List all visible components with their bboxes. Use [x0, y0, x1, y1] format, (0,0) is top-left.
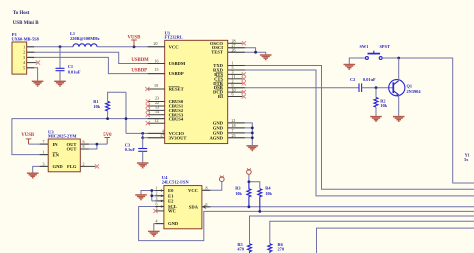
power port VUSB [131, 40, 137, 47]
no-connect X on RI [242, 94, 246, 98]
svg-text:FT232RL: FT232RL [165, 35, 183, 40]
svg-text:USBDP: USBDP [131, 68, 147, 73]
wire U1 GND3 [228, 132, 253, 134]
svg-text:3V3OUT: 3V3OUT [169, 135, 187, 140]
svg-text:20: 20 [154, 41, 158, 46]
svg-text:Q1: Q1 [407, 83, 413, 88]
svg-text:3: 3 [43, 161, 45, 166]
wire R6 net [270, 221, 474, 244]
wire E join vertical [151, 191, 153, 201]
ground U4 E pins [135, 195, 147, 200]
svg-text:10k: 10k [93, 104, 100, 109]
capacitor C1 [56, 68, 65, 70]
wire U3 GND to ground [33, 166, 49, 172]
wire SCL net loop [139, 207, 474, 241]
wire U4 VCC [202, 182, 222, 191]
node C1 tap [59, 45, 62, 48]
svg-text:VUSB: VUSB [128, 35, 142, 40]
svg-text:AGND: AGND [209, 135, 223, 140]
node R1 on EN net [106, 117, 109, 120]
wire U1 CBUS3 stub [148, 114, 165, 116]
svg-text:14: 14 [155, 109, 159, 114]
svg-text:MIC2025-2YM: MIC2025-2YM [48, 133, 76, 138]
svg-text:SDA: SDA [189, 204, 199, 209]
capacitor C3 [138, 149, 147, 152]
wire L1 to U1 VCC [97, 46, 165, 48]
wire SW1 right / SW net [382, 58, 474, 183]
svg-text:USBDM: USBDM [131, 58, 149, 63]
wire U3 IN [29, 143, 49, 145]
svg-text:2N3904: 2N3904 [407, 89, 422, 94]
wire U1 3V3OUT [143, 137, 165, 139]
svg-text:0.01uF: 0.01uF [68, 70, 81, 75]
connector P1 body [12, 42, 27, 74]
svg-text:EN: EN [53, 152, 60, 157]
svg-text:5x: 5x [464, 157, 468, 162]
wire U4 GND [154, 224, 164, 231]
svg-text:25: 25 [232, 133, 236, 138]
wire VCCIO to 3V3OUT [142, 133, 144, 137]
wire U1 RESET stub [148, 88, 165, 90]
IC U1 left pin names [169, 44, 187, 140]
wire U1 GND2 [228, 127, 253, 129]
svg-text:IN: IN [53, 142, 59, 147]
svg-text:E2: E2 [168, 199, 174, 204]
pin stubs U4 [155, 190, 210, 223]
wire U1 TEST to ground [228, 52, 266, 54]
no-connect X on CBUS0 [146, 99, 150, 103]
wire U1 CBUS1 stub [148, 105, 165, 107]
IC U1 left pin numbers [154, 41, 165, 138]
svg-text:SPST: SPST [380, 44, 390, 49]
power port 3V3 circle at R3 [247, 168, 252, 174]
node E1 [150, 194, 153, 197]
node VCCIO tap [141, 132, 144, 135]
svg-text:C1: C1 [68, 64, 73, 69]
wire U1 VCCIO [126, 132, 165, 134]
wire Q1 collector up [398, 58, 400, 81]
wire R1 top [108, 92, 126, 101]
svg-text:24LC512-I/SN: 24LC512-I/SN [162, 180, 190, 185]
wire R3 R4 top bridge [249, 174, 260, 189]
wire U1 pin12 stub [148, 122, 165, 124]
wire U1 OSCI [228, 48, 256, 53]
IC U1 right pin names [209, 41, 223, 141]
no-connect X on RTS [242, 72, 246, 76]
wire SDA net [202, 206, 474, 208]
node AGND [251, 136, 254, 139]
node R4 on SCL [258, 210, 261, 213]
ground C3 [137, 163, 149, 168]
pin arrows U4 [161, 189, 205, 208]
no-connect X on OSCO [242, 41, 246, 45]
svg-text:RI: RI [218, 94, 223, 99]
svg-text:GND: GND [168, 221, 179, 226]
wire 3V3 vertical [125, 92, 127, 133]
svg-text:UX60-MB-5S8: UX60-MB-5S8 [12, 36, 40, 41]
wire U1 DCD stub [228, 91, 243, 93]
wire U4 E0 [141, 191, 164, 195]
node OUT join [96, 143, 99, 146]
node 3V3 vertical on EN net [125, 117, 128, 120]
svg-text:FLG: FLG [67, 164, 77, 169]
resistor R4 body [258, 189, 262, 212]
no-connect X on FLG [95, 164, 99, 168]
svg-text:VUSB: VUSB [21, 133, 35, 138]
transistor Q1 body [389, 80, 405, 97]
capacitor C2 [359, 83, 362, 92]
svg-text:R4: R4 [265, 185, 271, 190]
wire TXD net [228, 66, 474, 190]
inductor L1 [73, 44, 97, 47]
wire P1 pin1 to L1 (VBUS) [27, 46, 73, 48]
wire C3 bottom [142, 151, 144, 162]
wire U4 E1 [152, 195, 164, 197]
node R2 tap [375, 86, 378, 89]
no-connect X on P1 pin4 [36, 61, 40, 65]
svg-text:15: 15 [155, 67, 159, 72]
wire P1 pin2 to U1 USBDM [27, 52, 165, 63]
wire Q1 emitter down [398, 95, 400, 116]
ground U1 GND [247, 146, 259, 151]
wire EN net long (U3 EN to U1 CBUS4) [12, 119, 165, 155]
no-connect X on CBUS1 [146, 104, 150, 108]
node GND3 [251, 132, 254, 135]
svg-text:3: 3 [156, 196, 158, 201]
pin stubs U1 right [228, 48, 245, 138]
svg-text:270: 270 [278, 246, 285, 251]
svg-text:4: 4 [156, 219, 158, 224]
U4 pin names [168, 188, 199, 226]
wire P1 pin3 to U1 USBDP [27, 57, 165, 73]
svg-text:RESET: RESET [169, 87, 184, 92]
no-connect X on DCD [242, 90, 246, 94]
wire R2 bottom [375, 107, 377, 116]
no-connect X on WC [153, 209, 157, 213]
resistor R2 body [374, 98, 378, 108]
wire bottom right net [317, 228, 474, 253]
svg-text:R3: R3 [235, 185, 241, 190]
svg-text:C2: C2 [350, 77, 355, 82]
no-connect X on CBUS2 [146, 108, 150, 112]
node VUSB tap [133, 45, 136, 48]
U3 pin names [53, 142, 77, 169]
wire U3 OUT pin6 [80, 143, 107, 145]
svg-text:GND: GND [53, 164, 64, 169]
node GND2 [251, 127, 254, 130]
svg-text:5: 5 [206, 202, 208, 207]
wire U1 OSCO stub [228, 42, 243, 44]
svg-text:USB Mini B: USB Mini B [13, 21, 40, 26]
wire C2 to Q1 base [362, 87, 394, 89]
node R3 on SDA [248, 205, 251, 208]
node 3V3OUT tap [141, 136, 144, 139]
svg-text:USBDM: USBDM [169, 61, 186, 66]
svg-text:10k: 10k [235, 191, 242, 196]
wire U1 RTS stub [228, 73, 243, 75]
ground U4 [148, 231, 160, 236]
power port 5V0 [104, 138, 110, 145]
SDA arrow [203, 205, 206, 209]
svg-text:8: 8 [206, 185, 208, 190]
wire U1 CBUS0 stub [148, 101, 165, 103]
pin stubs U3 [40, 144, 89, 166]
wire R5 net [250, 216, 474, 244]
wire P1 pin4 stub [27, 62, 37, 64]
svg-text:CBUS4: CBUS4 [169, 117, 184, 122]
pin stubs U1 left [148, 47, 165, 138]
wire U3 OUT pin8 [80, 144, 97, 149]
ground TEST [260, 55, 272, 60]
svg-text:2: 2 [83, 161, 85, 166]
wire U1 RI stub [228, 96, 243, 98]
wire U4 E2 [152, 200, 164, 202]
ground C1 [54, 81, 66, 86]
wire RXD net [228, 70, 474, 196]
svg-text:8: 8 [83, 144, 85, 149]
wire DSR net to C2 [228, 87, 359, 89]
svg-text:19: 19 [154, 83, 158, 88]
no-connect X on pin12 [146, 121, 150, 125]
ground R2 [370, 117, 382, 122]
wire U1 CTS stub [228, 78, 243, 80]
resistor R5 body [248, 244, 252, 253]
power port VUSB at U3 [26, 139, 32, 144]
svg-text:VCC: VCC [188, 188, 198, 193]
IC U1 right pin numbers [232, 39, 236, 139]
IC U1 right pin overlines [215, 72, 223, 94]
node E0 [150, 189, 153, 192]
node Q1 collector tap [397, 57, 400, 60]
svg-text:VCC: VCC [169, 44, 179, 49]
ground Q1 emitter [393, 117, 405, 122]
wire U4 WC stub [156, 210, 164, 212]
connector P1 pin numbers [23, 44, 26, 70]
IC U1 body [165, 40, 228, 143]
wire C1 bottom [59, 71, 61, 81]
resistor R3 body [247, 182, 251, 207]
wire C3 top [142, 138, 144, 149]
ground SW1 [344, 65, 356, 70]
wire C1 top [59, 47, 61, 69]
wire SW1 left to ground [349, 58, 365, 64]
wire R1 bottom [107, 111, 109, 119]
wire U1 DTR stub [228, 82, 243, 84]
svg-text:10k: 10k [380, 103, 387, 108]
resistor R1 body [106, 101, 110, 111]
svg-text:WC: WC [168, 209, 176, 214]
wire P1 pin5 to ground [27, 68, 38, 81]
svg-text:To Host: To Host [13, 11, 30, 16]
svg-text:TEST: TEST [211, 50, 223, 55]
svg-text:16: 16 [155, 59, 159, 64]
svg-text:0.1uF: 0.1uF [125, 147, 136, 152]
svg-text:470: 470 [237, 246, 244, 251]
svg-text:7: 7 [43, 139, 45, 144]
ground P1 shield [32, 81, 44, 86]
svg-text:0.01uF: 0.01uF [363, 77, 376, 82]
eeprom U4 body [164, 186, 202, 229]
no-connect X on CTS [242, 77, 246, 81]
node R3 top [248, 180, 251, 183]
svg-text:220R@100MHz: 220R@100MHz [70, 36, 100, 41]
resistor R6 body [268, 244, 272, 253]
wire U3 FLG stub [80, 165, 95, 167]
IC U1 RESET overline [169, 86, 180, 88]
svg-text:USBDP: USBDP [169, 71, 184, 76]
no-connect X on DTR [242, 81, 246, 85]
U4 WC overline [168, 208, 175, 210]
node OSCI TEST join [254, 51, 257, 54]
svg-text:5V0: 5V0 [103, 133, 112, 138]
U3 EN overline [53, 152, 58, 154]
U4 pin numbers [156, 185, 208, 223]
svg-text:5: 5 [23, 65, 25, 70]
U3 pin numbers [43, 139, 85, 166]
wire R2 top [375, 88, 377, 98]
no-connect X on RESET [145, 87, 149, 91]
ground U3 [27, 173, 39, 178]
switch SW1 body [365, 51, 382, 60]
svg-text:1: 1 [43, 150, 45, 155]
wire U1 CBUS2 stub [148, 109, 165, 111]
svg-text:SW1: SW1 [360, 44, 369, 49]
no-connect X on CBUS3 [146, 113, 150, 117]
regulator U3 body [48, 139, 80, 172]
svg-text:OUT: OUT [67, 147, 77, 152]
wire U1 GND pins [228, 123, 253, 145]
power port 3V3 circle at U4 [220, 176, 225, 182]
wire U1 AGND [228, 137, 253, 139]
svg-text:1: 1 [23, 44, 25, 49]
svg-text:10k: 10k [265, 191, 272, 196]
pin stubs P1 [27, 47, 35, 68]
